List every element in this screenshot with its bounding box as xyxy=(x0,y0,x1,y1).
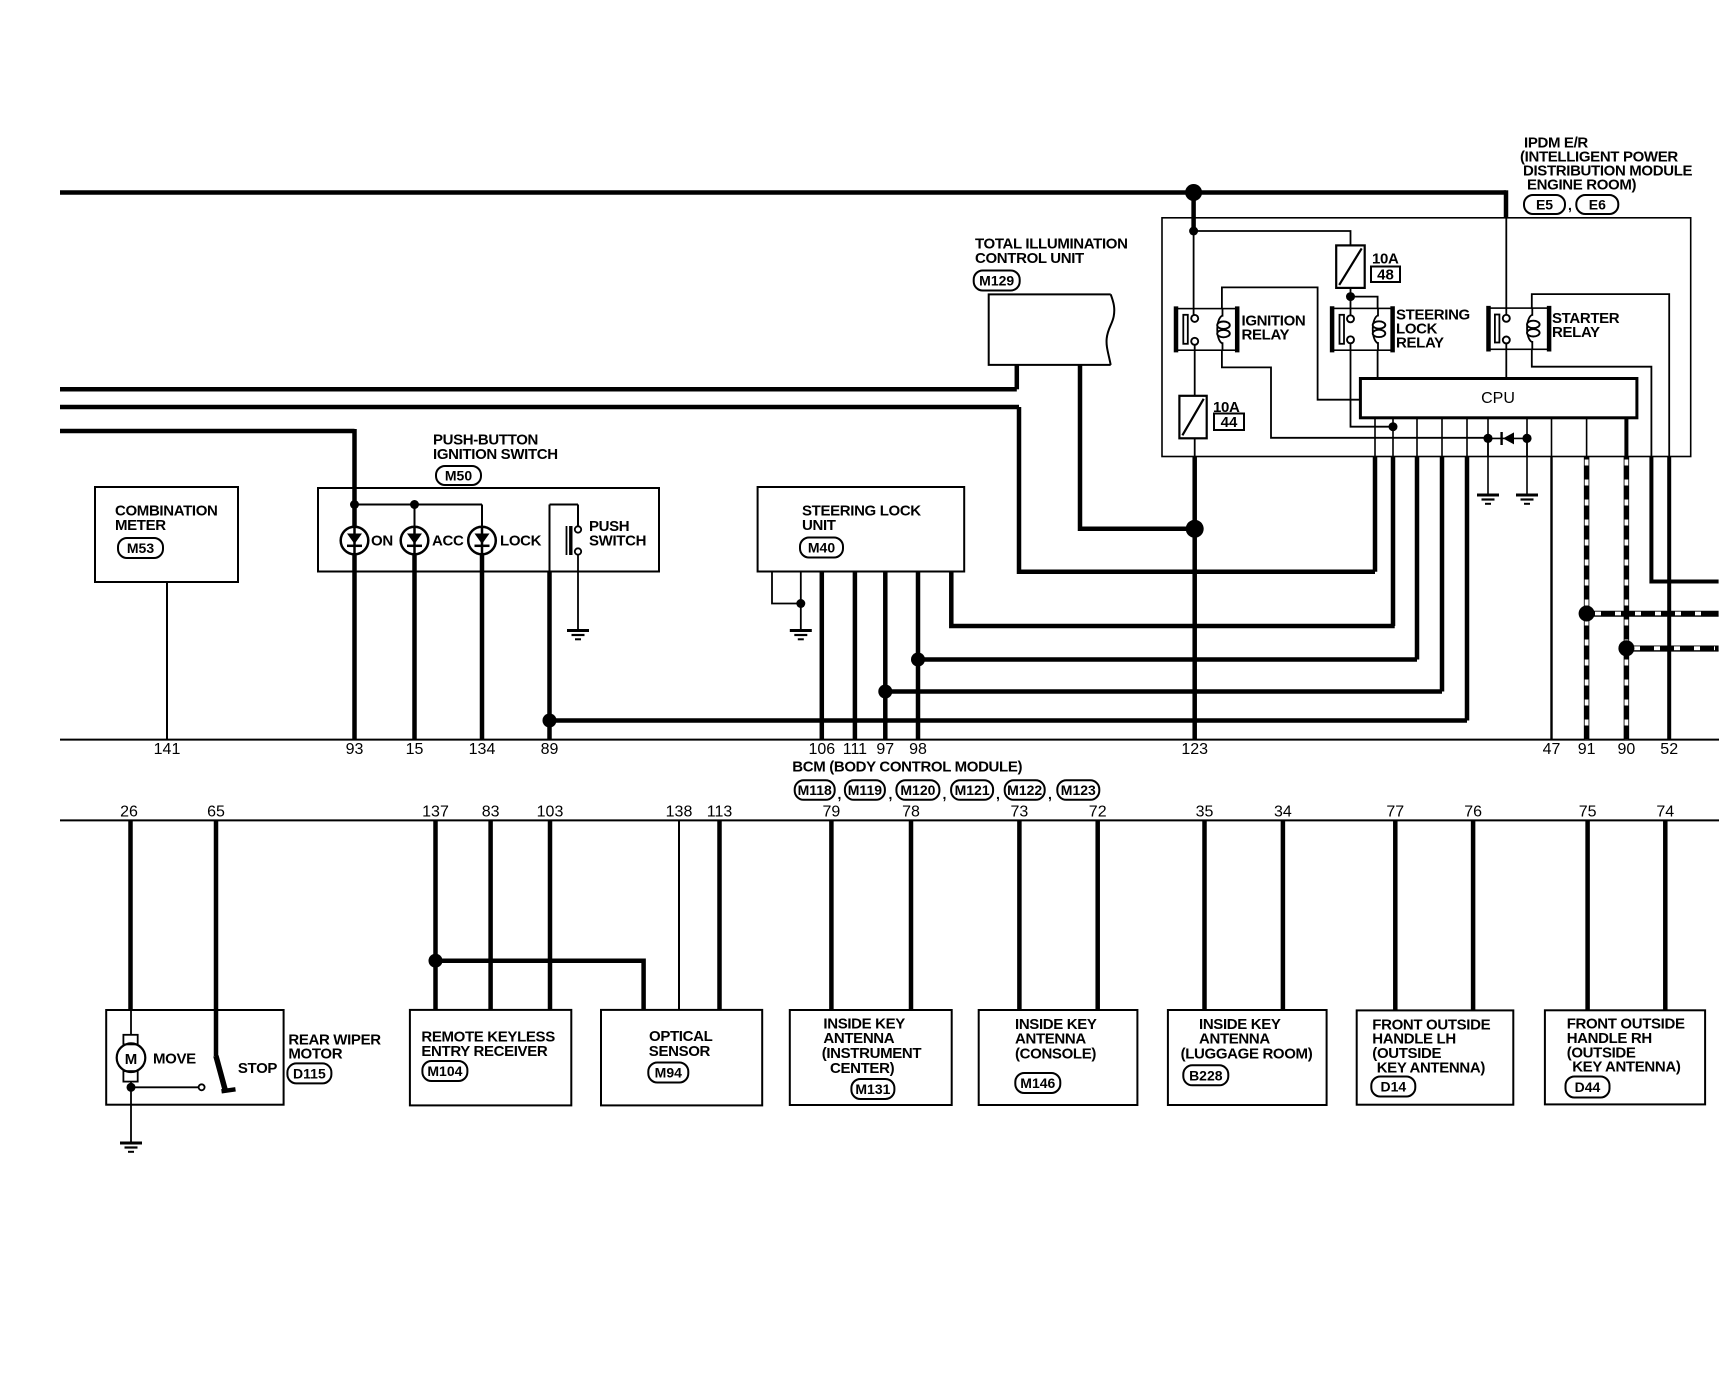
wire SLU ground branch left xyxy=(772,572,801,604)
svg-text:CPU: CPU xyxy=(1481,390,1515,407)
wire 83 xyxy=(488,821,493,1010)
wire illumination unit to wire 123 xyxy=(1080,365,1195,529)
svg-text:ON: ON xyxy=(371,533,393,550)
wire starter relay coil bottom exit right xyxy=(1532,349,1652,456)
wire 90 shielded dashed to BCM xyxy=(1624,457,1630,740)
wire 91 shielded dashed to BCM xyxy=(1584,457,1590,740)
node dot SLR contact to CPU pin xyxy=(1389,422,1398,431)
front outside handle LH box xyxy=(1357,1010,1514,1104)
diode between CPU pins xyxy=(1483,432,1531,445)
svg-text:D14: D14 xyxy=(1380,1079,1406,1095)
wire fuse 48 dot to steering lock relay coil xyxy=(1351,297,1378,309)
wire CPU pin 5 thick drop to 89 elbow xyxy=(1465,457,1470,721)
svg-text:65: 65 xyxy=(207,804,225,821)
svg-text:M122: M122 xyxy=(1007,782,1042,798)
wire 98 xyxy=(916,572,921,740)
node junction dot on wire 98 xyxy=(911,653,925,667)
stop contact open circle xyxy=(199,1084,205,1090)
wire from 89 junction to CPU pin column xyxy=(550,718,1468,723)
svg-text:15: 15 xyxy=(406,741,424,758)
wire 35 xyxy=(1202,821,1207,1010)
wire 72 xyxy=(1095,821,1100,1010)
wire bus 1 drop into IPDM xyxy=(1504,190,1509,218)
wire 78 xyxy=(909,821,914,1010)
svg-text:76: 76 xyxy=(1464,804,1482,821)
wire CPU pin 3 thick drop to 98 elbow xyxy=(1415,457,1420,660)
CPU pin stub 5 xyxy=(1466,418,1468,457)
IPDM E/R box xyxy=(1162,218,1691,457)
wire starter relay coil top to wire 52 xyxy=(1532,294,1669,456)
svg-text:98: 98 xyxy=(909,741,927,758)
CPU pin stub 2 xyxy=(1392,418,1394,457)
svg-text:,: , xyxy=(1568,197,1572,213)
connector M121 xyxy=(951,780,993,800)
wire main power bus 1 (top) xyxy=(60,190,1506,195)
wire 89 from push switch box to BCM xyxy=(547,572,552,740)
svg-text:,: , xyxy=(996,786,1000,802)
svg-text:M53: M53 xyxy=(127,540,154,556)
wire illumination unit to bus 2 xyxy=(1015,365,1020,389)
wire 93 (ON) from bus 4 through switch to BCM xyxy=(352,429,357,740)
svg-text:141: 141 xyxy=(154,741,181,758)
connector M50 xyxy=(436,466,481,485)
wire 134 (LOCK) to BCM xyxy=(480,552,485,740)
front outside handle RH box xyxy=(1545,1010,1705,1104)
node dot on SLU ground branch xyxy=(796,599,805,608)
wire diode left pin to ground xyxy=(1487,438,1489,494)
LED ON indicator xyxy=(341,527,369,555)
wire shielded dashed from 91 junction exiting right xyxy=(1587,614,1719,617)
wire CPU pin 2 thick drop to SLU elbow xyxy=(1391,457,1396,627)
svg-text:M123: M123 xyxy=(1061,782,1096,798)
svg-text:M40: M40 xyxy=(808,540,835,556)
wire 52 thick segment to BCM xyxy=(1667,457,1671,740)
wire 34 xyxy=(1281,821,1286,1010)
svg-text:MOVE: MOVE xyxy=(153,1051,196,1068)
node dot inside IPDM on ignition feed xyxy=(1189,227,1198,236)
wire diode right pin to ground xyxy=(1526,438,1528,494)
wire 75 xyxy=(1585,821,1590,1010)
CPU pin stub 4 xyxy=(1441,418,1443,457)
wire 138 xyxy=(678,821,680,1010)
svg-text:SWITCH: SWITCH xyxy=(589,533,646,550)
svg-text:M104: M104 xyxy=(427,1063,462,1079)
svg-text:RELAY: RELAY xyxy=(1242,327,1290,344)
wire power bus 2 xyxy=(60,387,1017,392)
svg-text:74: 74 xyxy=(1656,804,1674,821)
LED LOCK indicator xyxy=(468,527,496,555)
connector E6 xyxy=(1576,195,1618,214)
wire thick segment exiting right at y 581.5 xyxy=(1651,457,1718,582)
connector M119 xyxy=(845,780,885,800)
svg-text:138: 138 xyxy=(666,804,693,821)
svg-text:CONTROL UNIT: CONTROL UNIT xyxy=(975,250,1084,267)
svg-text:52: 52 xyxy=(1660,741,1678,758)
svg-text:D44: D44 xyxy=(1575,1079,1601,1095)
svg-text:48: 48 xyxy=(1377,267,1394,284)
wire steering lock relay contact to CPU pin (dot) xyxy=(1351,343,1394,427)
wire ignition relay feed from bus 1 (thick stub) xyxy=(1191,193,1196,232)
node junction dot on wire 123 xyxy=(1186,520,1204,538)
svg-text:IGNITION SWITCH: IGNITION SWITCH xyxy=(433,446,558,463)
wire branch from 137 to optical sensor xyxy=(436,961,644,1010)
wire 76 xyxy=(1471,821,1476,1010)
svg-text:ENGINE ROOM): ENGINE ROOM) xyxy=(1527,177,1636,194)
wire 73 xyxy=(1017,821,1022,1010)
svg-text:M94: M94 xyxy=(655,1065,682,1081)
svg-text:,: , xyxy=(1048,786,1052,802)
node junction dot on wire 97 xyxy=(878,685,892,699)
wire CPU pin 1 thick drop to elbow (bus3 link) xyxy=(1373,457,1378,572)
wire 137 xyxy=(433,821,438,1010)
wire 15 (ACC) to BCM xyxy=(412,552,417,740)
svg-text:KEY ANTENNA): KEY ANTENNA) xyxy=(1572,1059,1681,1076)
node junction dot on bus 1 feeding ignition relay xyxy=(1185,184,1202,201)
wire ignition relay feed lower thin xyxy=(1193,231,1195,316)
ground below steering lock unit xyxy=(790,631,812,640)
svg-text:77: 77 xyxy=(1386,804,1404,821)
ground below push switch xyxy=(567,631,589,640)
wire 134 (LOCK) upper thin segment xyxy=(481,505,483,530)
wire power bus 4 xyxy=(60,429,355,434)
svg-text:90: 90 xyxy=(1618,741,1636,758)
CPU pin stub 3 xyxy=(1416,418,1418,457)
wire 74 xyxy=(1663,821,1668,1010)
ignition relay xyxy=(1176,306,1237,352)
svg-text:34: 34 xyxy=(1274,804,1292,821)
steering lock relay xyxy=(1332,306,1393,352)
svg-text:72: 72 xyxy=(1089,804,1107,821)
svg-text:,: , xyxy=(838,786,842,802)
svg-text:D115: D115 xyxy=(293,1066,326,1082)
node dot below fuse 48 xyxy=(1346,292,1355,301)
svg-text:91: 91 xyxy=(1578,741,1596,758)
connector M118 xyxy=(795,780,835,800)
wire power bus 3 xyxy=(60,405,1019,410)
wire 103 xyxy=(548,821,553,1010)
wire 77 xyxy=(1393,821,1398,1010)
wire 106 xyxy=(820,572,825,740)
wire 79 xyxy=(829,821,834,1010)
CPU pin stub 10 (wire 90, thick) xyxy=(1624,418,1628,457)
node junction dot on wire 90 xyxy=(1618,640,1634,656)
connector M94 xyxy=(648,1063,688,1083)
node junction dot on wire 137 xyxy=(429,954,443,968)
svg-text:M129: M129 xyxy=(979,273,1014,289)
node dot below motor xyxy=(127,1083,136,1092)
wire SLU right pin to CPU pin column xyxy=(951,572,1394,627)
svg-text:STOP: STOP xyxy=(238,1060,278,1077)
svg-text:M118: M118 xyxy=(798,782,832,798)
svg-text:M146: M146 xyxy=(1020,1075,1055,1091)
svg-text:MOTOR: MOTOR xyxy=(288,1046,342,1063)
wire ignition relay contact to fuse 44 xyxy=(1194,344,1196,396)
inside key antenna luggage room box xyxy=(1168,1010,1327,1105)
svg-text:83: 83 xyxy=(482,804,500,821)
wire BCM top bus line xyxy=(60,739,1719,741)
svg-text:M120: M120 xyxy=(900,782,935,798)
steering lock unit M40 box xyxy=(758,487,965,572)
svg-text:26: 26 xyxy=(120,804,138,821)
wire 47 to BCM xyxy=(1550,457,1552,740)
LED ACC indicator xyxy=(401,527,429,555)
wire starter relay contact to CPU top xyxy=(1505,343,1507,378)
wire from push switch to ground xyxy=(577,555,579,631)
wire 113 xyxy=(717,821,722,1010)
CPU pin stub 6 (diode left) xyxy=(1487,418,1489,457)
connector M123 xyxy=(1057,780,1099,800)
svg-text:B228: B228 xyxy=(1189,1068,1223,1084)
CPU pin stub 1 xyxy=(1374,418,1376,457)
wire CPU pin 4 thick drop to 97 elbow xyxy=(1440,457,1445,692)
wire bus 3 elbow down and across to CPU pin xyxy=(1019,407,1375,572)
wire 141 from combination meter to BCM xyxy=(166,582,168,740)
svg-text:89: 89 xyxy=(541,741,559,758)
svg-text:METER: METER xyxy=(115,517,166,534)
connector E5 xyxy=(1524,195,1565,214)
stop switch blade xyxy=(216,1056,225,1090)
svg-text:RELAY: RELAY xyxy=(1396,335,1444,352)
connector M104 xyxy=(422,1061,467,1081)
svg-text:(LUGGAGE ROOM): (LUGGAGE ROOM) xyxy=(1181,1046,1313,1063)
svg-text:44: 44 xyxy=(1221,414,1238,431)
optical sensor box xyxy=(601,1010,762,1106)
wire fuse 48 to steering lock relay contact xyxy=(1350,288,1352,316)
ground below rear wiper motor xyxy=(120,1143,142,1152)
svg-text:LOCK: LOCK xyxy=(500,533,542,550)
wire 15 (ACC) upper thin segment xyxy=(414,505,416,530)
wire motor to ground xyxy=(130,1087,132,1142)
svg-text:47: 47 xyxy=(1543,741,1561,758)
connector M131 xyxy=(851,1079,894,1099)
inside key antenna instrument center box xyxy=(790,1010,952,1105)
starter relay xyxy=(1489,306,1550,352)
svg-text:106: 106 xyxy=(808,741,835,758)
push-button ignition switch box xyxy=(318,488,659,572)
svg-text:KEY ANTENNA): KEY ANTENNA) xyxy=(1377,1060,1486,1077)
svg-text:M119: M119 xyxy=(848,782,882,798)
CPU pin stub 7 (diode right) xyxy=(1526,418,1528,457)
fuse number 44 box xyxy=(1214,414,1244,431)
fuse 44 xyxy=(1179,396,1206,439)
svg-text:UNIT: UNIT xyxy=(802,517,836,534)
wire 65 xyxy=(214,821,219,1056)
svg-text:35: 35 xyxy=(1196,804,1214,821)
wire 97 xyxy=(883,572,888,740)
wire shielded dashed from 90 junction exiting right xyxy=(1626,648,1718,651)
inside key antenna console box xyxy=(979,1010,1138,1105)
wire bottom bus line xyxy=(60,819,1719,821)
svg-text:97: 97 xyxy=(876,741,894,758)
svg-text:M: M xyxy=(125,1051,138,1068)
svg-text:,: , xyxy=(889,786,893,802)
svg-text:103: 103 xyxy=(537,804,564,821)
wire link between indicator feeds xyxy=(355,504,483,506)
connector D14 xyxy=(1371,1077,1415,1097)
svg-text:E5: E5 xyxy=(1536,197,1553,213)
svg-text:RELAY: RELAY xyxy=(1552,324,1600,341)
ground below diode right xyxy=(1516,495,1538,504)
node dot at ACC feed xyxy=(410,500,419,509)
fuse number 48 box xyxy=(1371,267,1400,283)
svg-text:137: 137 xyxy=(422,804,449,821)
wire motor to stop contact xyxy=(131,1086,199,1088)
wire from ignition feed dot to fuse 48 xyxy=(1194,231,1351,245)
svg-text:M50: M50 xyxy=(445,468,472,484)
svg-text:123: 123 xyxy=(1181,741,1208,758)
svg-text:73: 73 xyxy=(1011,804,1029,821)
connector B228 xyxy=(1183,1065,1228,1085)
connector D115 xyxy=(287,1063,331,1083)
fuse 48 xyxy=(1336,245,1365,288)
total illumination control unit box (torn right edge) xyxy=(989,294,1115,365)
wire steering lock relay coil to CPU top xyxy=(1377,350,1379,378)
remote keyless entry receiver box xyxy=(410,1010,571,1106)
svg-text:93: 93 xyxy=(346,741,364,758)
svg-text:BCM (BODY CONTROL MODULE): BCM (BODY CONTROL MODULE) xyxy=(792,759,1022,776)
svg-text:M121: M121 xyxy=(955,782,990,798)
svg-text:79: 79 xyxy=(823,804,841,821)
svg-text:10A: 10A xyxy=(1372,251,1399,268)
connector D44 xyxy=(1566,1077,1610,1098)
connector M122 xyxy=(1005,780,1045,800)
svg-text:(CONSOLE): (CONSOLE) xyxy=(1015,1046,1096,1063)
connector M40 xyxy=(800,538,843,558)
wire ignition relay coil top to CPU left edge xyxy=(1222,287,1361,399)
svg-text:113: 113 xyxy=(707,804,733,821)
svg-text:M131: M131 xyxy=(855,1081,890,1097)
wire ignition relay coil bottom to diode node xyxy=(1222,350,1489,438)
connector M146 xyxy=(1015,1073,1060,1093)
svg-text:75: 75 xyxy=(1579,804,1597,821)
svg-text:ENTRY RECEIVER: ENTRY RECEIVER xyxy=(421,1043,547,1060)
wire from 97 junction to CPU pin column xyxy=(885,689,1442,694)
svg-text:78: 78 xyxy=(902,804,920,821)
push switch symbol xyxy=(550,505,582,572)
node junction dot on wire 91 xyxy=(1579,606,1595,622)
CPU pin stub 9 (wire 91) xyxy=(1586,418,1588,457)
motor M symbol xyxy=(117,1010,146,1087)
svg-text:E6: E6 xyxy=(1589,197,1606,213)
svg-text:,: , xyxy=(943,786,947,802)
svg-text:CENTER): CENTER) xyxy=(830,1060,895,1077)
combination meter M53 box xyxy=(95,487,238,582)
svg-text:SENSOR: SENSOR xyxy=(649,1043,711,1060)
rear wiper motor box xyxy=(106,1010,283,1105)
wire 26 xyxy=(128,821,133,1010)
wire SLU ground branch right xyxy=(800,572,802,631)
CPU box xyxy=(1360,379,1637,418)
connector M129 xyxy=(974,271,1020,291)
wire 123 from fuse 44 to BCM xyxy=(1194,438,1196,456)
CPU pin stub 8 (wire 47) xyxy=(1551,418,1553,457)
connector M53 xyxy=(118,538,163,558)
ground below diode left xyxy=(1477,495,1499,504)
svg-text:111: 111 xyxy=(843,741,867,758)
svg-text:ACC: ACC xyxy=(432,533,464,550)
node dot at ON feed xyxy=(350,500,359,509)
svg-text:134: 134 xyxy=(469,741,496,758)
wire from 98 junction to CPU pin column xyxy=(918,657,1417,662)
node junction dot on wire 89 xyxy=(543,714,557,728)
wire 111 xyxy=(853,572,858,740)
connector M120 xyxy=(896,780,939,800)
wire starter relay contact feed from bus 1 xyxy=(1505,218,1507,315)
